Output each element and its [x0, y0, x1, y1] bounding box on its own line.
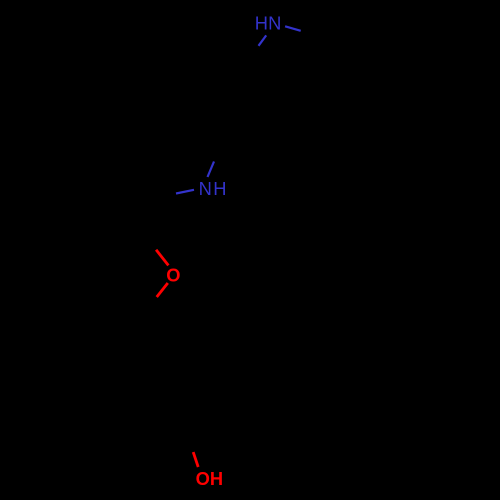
bond O1-C8 half (up-left from O): [156, 250, 168, 266]
bond N1-C5 half (right from HN): [285, 26, 301, 31]
svg-text:N: N: [268, 13, 281, 34]
svg-text:H: H: [255, 13, 268, 34]
svg-text:N: N: [199, 178, 212, 199]
bond N2-C7 half (left from NH): [176, 190, 194, 194]
bond O1-C9 half (down-left from O): [157, 283, 168, 297]
bond O2-C10 half (up from OH): [193, 452, 198, 467]
svg-text:OH: OH: [196, 468, 223, 489]
bond N2-C6 half (up from NH): [208, 162, 215, 178]
svg-text:O: O: [166, 264, 180, 285]
bond N1-C2 half (down-left from HN): [259, 35, 267, 45]
svg-text:H: H: [213, 178, 226, 199]
